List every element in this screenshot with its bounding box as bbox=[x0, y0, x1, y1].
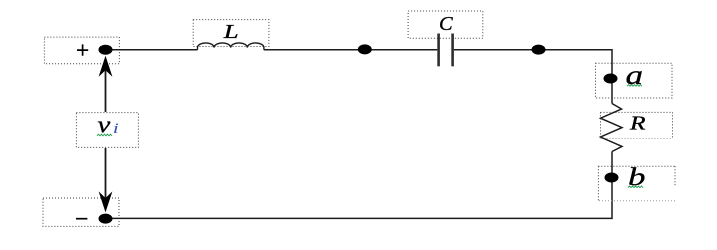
node junction dot after C bbox=[532, 45, 546, 55]
label box b bbox=[598, 166, 675, 201]
node junction dot between L and C bbox=[358, 44, 372, 54]
wire resistor to bottom corner bbox=[106, 152, 613, 219]
label box minus terminal bbox=[43, 198, 119, 226]
resistor R zigzag bbox=[601, 104, 623, 152]
squiggle under b bbox=[628, 186, 643, 188]
squiggle under vi bbox=[97, 134, 112, 136]
label box a bbox=[596, 63, 673, 98]
minus sign bbox=[76, 218, 87, 220]
svg-text:L: L bbox=[223, 21, 239, 43]
plus sign bbox=[77, 44, 88, 55]
node b dot bbox=[605, 173, 619, 183]
label box R bbox=[601, 112, 673, 138]
wire between L and C bbox=[264, 49, 437, 51]
squiggle under a bbox=[627, 85, 642, 87]
label box vi bbox=[76, 113, 138, 148]
inductor L bbox=[198, 43, 264, 50]
node plus terminal dot bbox=[99, 45, 113, 55]
source arrow up bbox=[105, 70, 107, 113]
svg-text:b: b bbox=[628, 163, 645, 191]
svg-text:R: R bbox=[629, 112, 646, 134]
source arrow down bbox=[105, 148, 107, 199]
label box C bbox=[408, 11, 483, 38]
node minus terminal dot bbox=[99, 214, 113, 224]
capacitor C plates bbox=[437, 34, 440, 67]
node a dot bbox=[604, 74, 618, 84]
svg-text:a: a bbox=[626, 60, 644, 90]
svg-text:C: C bbox=[439, 13, 453, 35]
label box L bbox=[193, 20, 269, 47]
svg-text:v: v bbox=[98, 111, 111, 138]
label box plus terminal bbox=[44, 37, 119, 64]
wire between C and corner bbox=[454, 50, 612, 104]
svg-text:i: i bbox=[113, 121, 119, 137]
wire top left segment bbox=[106, 49, 198, 51]
